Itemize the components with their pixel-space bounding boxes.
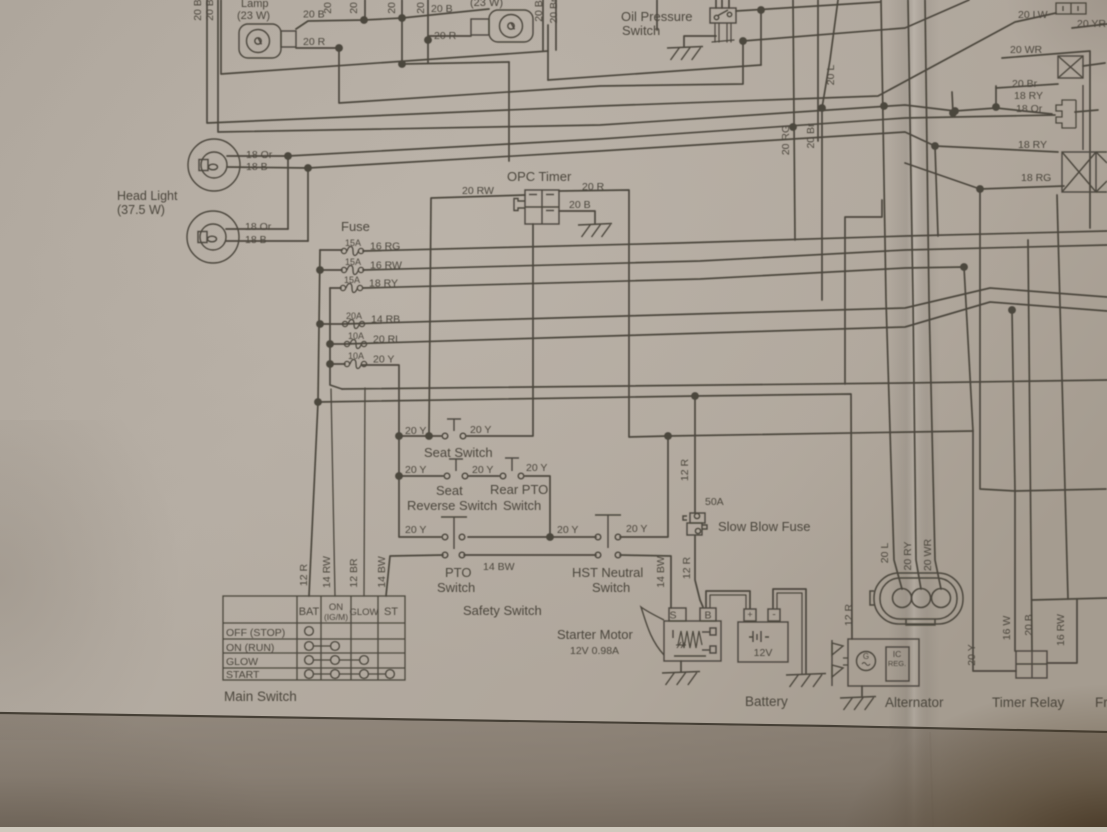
ground (OPC timer) (578, 224, 612, 238)
svg-text:14 RB: 14 RB (371, 314, 400, 326)
svg-text:20 B: 20 B (533, 0, 545, 22)
wire bus F to alternator (318, 394, 852, 639)
top-right soft shade (900, 0, 1107, 170)
wire fuse left vertical x330 (330, 288, 342, 389)
svg-text:14 BW: 14 BW (376, 556, 388, 588)
wire 18Or headlight2 (226, 228, 288, 230)
wire battery minus to ground inner (777, 593, 802, 674)
wire bus to right edge y490 (1015, 489, 1106, 491)
wire starter to ground (680, 661, 682, 672)
bottom-right shadow (700, 580, 1107, 827)
fold crease below rule (930, 732, 933, 827)
wire HST right up (620, 438, 668, 537)
wire step at fold down to bus (845, 200, 882, 384)
wire 20Br stub to connector (996, 84, 1058, 88)
svg-text:S: S (669, 610, 676, 622)
fuse F1 15A 16RG (341, 247, 363, 256)
headlight H2 (37.5 W) (187, 211, 239, 263)
fuse F6 10A 20Y (344, 360, 366, 369)
svg-text:20 Br: 20 Br (805, 123, 817, 149)
svg-text:20 R: 20 R (434, 30, 457, 42)
wire starter B to battery plus inner (710, 595, 746, 608)
svg-text:20 Br: 20 Br (548, 0, 560, 24)
wire 18RY long bus (308, 132, 1058, 168)
wire PTO to HST row1 (468, 536, 596, 538)
wire 12R to slow blow fuse (694, 396, 696, 513)
svg-text:Head Light: Head Light (117, 189, 178, 203)
slow blow fuse F7 50A (683, 513, 707, 535)
wire vertical at x365 (364, 0, 366, 20)
wire seat switch right to OPC timer (467, 224, 533, 436)
svg-text:14 RW: 14 RW (321, 556, 333, 588)
svg-text:20 RW: 20 RW (462, 185, 494, 197)
wire 12R to main switch BAT (309, 402, 318, 596)
svg-text:20 Y: 20 Y (373, 354, 394, 366)
svg-text:12 R: 12 R (298, 563, 310, 586)
svg-text:Safety Switch: Safety Switch (463, 603, 542, 618)
wire fuse4 left stub (320, 323, 343, 325)
battery BT1 12V (738, 609, 788, 662)
wire 14BW to starter S (620, 555, 671, 608)
wire bus E across page (342, 380, 1107, 389)
svg-text:12V 0.98A: 12V 0.98A (570, 645, 619, 657)
svg-text:Switch: Switch (503, 498, 541, 513)
ground (alternator) (840, 697, 876, 711)
headlight H1 (37.5 W) (188, 139, 240, 191)
svg-text:HST Neutral: HST Neutral (572, 565, 643, 580)
wire 14BW PTO row2 to main switch ST (386, 555, 443, 596)
wire 16RG bus (363, 231, 1107, 251)
svg-text:14 BW: 14 BW (483, 561, 515, 573)
svg-text:(23 W): (23 W) (237, 10, 270, 22)
connector X-box top (1058, 56, 1083, 150)
wire 20WR long vertical to alternator connector (925, 0, 941, 589)
fuse F4 20A 14RB (342, 320, 364, 329)
wire fuse2 left stub (320, 269, 342, 271)
wire 18Or headlight1 (227, 155, 288, 157)
wire 20LW bus (far-left vertical to top-right connector) (207, 0, 1056, 123)
svg-text:16 RW: 16 RW (370, 260, 402, 272)
wire vertical x509 (508, 62, 510, 161)
svg-text:20 L: 20 L (879, 543, 891, 564)
wire 20WR line and right vertical (1002, 51, 1090, 228)
wire vertical x428 (427, 0, 429, 63)
svg-text:50A: 50A (705, 496, 724, 508)
left-middle soft shadow (0, 420, 260, 740)
wire 14RB bus (343, 288, 1107, 324)
svg-text:18 RY: 18 RY (369, 278, 398, 290)
wire OPS right exiting top after fold (743, 0, 969, 41)
wire starter B to battery plus outer (706, 591, 750, 608)
wire 20RG vertical (793, 0, 795, 240)
wire vertical from 18RY junction (935, 146, 938, 236)
svg-text:Switch: Switch (437, 580, 475, 595)
svg-text:14 BW: 14 BW (655, 556, 667, 588)
starter motor M1 (641, 607, 721, 661)
wire 20L long vertical to alternator connector (881, 0, 902, 589)
connector top-right small (1056, 3, 1086, 14)
alternator 3-pin connector J1 (870, 573, 963, 625)
lamp L1 (23 W) (239, 24, 296, 58)
svg-text:18 RG: 18 RG (1021, 172, 1051, 184)
wire between seat reverse and rear PTO (469, 475, 499, 477)
wire 20R to lamp2 (428, 35, 471, 37)
wire 12BR to main switch GLOW (364, 388, 365, 596)
svg-text:20 Y: 20 Y (526, 462, 547, 474)
svg-text:18 B: 18 B (246, 161, 268, 173)
connector X-box bottom pair (1062, 152, 1107, 192)
wire 20RY long vertical to alternator connector (908, 0, 921, 589)
svg-text:Switch: Switch (592, 580, 630, 595)
wire 18B headlight2 (226, 240, 308, 242)
svg-text:12 BR: 12 BR (348, 558, 360, 588)
svg-text:20 Y: 20 Y (405, 425, 426, 437)
svg-text:12 R: 12 R (681, 556, 693, 579)
svg-text:16 RG: 16 RG (370, 241, 400, 253)
wire 20B from OPC timer (559, 211, 595, 224)
bottom dark band (0, 714, 1107, 827)
wire OPS upper to right (736, 2, 880, 11)
wire OPS terminal b (718, 23, 720, 42)
oil pressure switch S1 (710, 8, 736, 23)
wire 20R from OPC timer, bus y435 (559, 190, 973, 437)
svg-text:20 B: 20 B (386, 0, 398, 14)
wire 18RY fuse bus to 20Y timer relay (363, 267, 1016, 671)
svg-text:20 B: 20 B (569, 199, 591, 211)
svg-text:OPC Timer: OPC Timer (507, 169, 572, 184)
wire lamp box left+bottom (221, 0, 548, 74)
svg-text:10A: 10A (348, 351, 364, 361)
wire OPS terminal bar (712, 40, 734, 42)
wire OPS terminal d (730, 23, 732, 42)
wire vertical x308 (307, 168, 309, 241)
svg-text:15A: 15A (345, 257, 361, 267)
fuse F2 15A 16RW (341, 266, 363, 275)
wire 20R down and across to oil pressure switch (339, 41, 743, 103)
wire lamp box right edge (547, 25, 549, 80)
svg-text:20 B: 20 B (192, 0, 204, 21)
wire 14RW to main switch ON (331, 389, 335, 596)
wire 20B vertical to timer relay (1028, 240, 1032, 651)
svg-text:20 B: 20 B (431, 3, 453, 15)
wire rear PTO right down (525, 476, 550, 537)
wire bus y599 right (1032, 598, 1107, 600)
svg-text:20 Y: 20 Y (626, 523, 647, 535)
svg-text:20 B: 20 B (348, 0, 360, 14)
PTO switch SW4 (441, 517, 467, 558)
svg-text:20 Y: 20 Y (472, 464, 493, 476)
wire fuse5 left stub (330, 343, 345, 345)
svg-text:15A: 15A (344, 275, 360, 285)
svg-text:15A: 15A (345, 238, 361, 248)
wire fuse6 left stub (330, 363, 345, 365)
rear PTO switch SW3 (500, 458, 524, 479)
svg-text:20 RL: 20 RL (373, 334, 401, 346)
wire fuse3 left stub (330, 287, 341, 289)
svg-text:20 WR: 20 WR (922, 539, 934, 572)
wire 18Or bus (left vertical to stepped connector) (218, 0, 1052, 132)
svg-text:20 B: 20 B (415, 0, 427, 14)
wire 20Br vertical (817, 0, 819, 141)
ground (oil pressure switch) (667, 47, 703, 61)
wire 20R from lamp1 (296, 47, 339, 49)
wire 20B between lamps (296, 9, 489, 29)
main switch table labels (226, 602, 398, 681)
seat reverse switch SW2 (444, 459, 468, 479)
ground (starter motor) (662, 672, 700, 686)
wire long right vertical (1057, 195, 1068, 599)
svg-text:Seat: Seat (436, 483, 463, 498)
HST neutral switch SW5 (595, 515, 621, 558)
wire 18RG line (905, 163, 1064, 189)
svg-text:20 R: 20 R (303, 36, 326, 48)
wire 18Or long bus (288, 115, 1055, 156)
wire battery minus to ground outer (773, 589, 806, 674)
svg-text:Fuse: Fuse (341, 219, 370, 234)
svg-text:20 Y: 20 Y (470, 424, 491, 436)
wire 20RW from OPC timer (429, 195, 525, 436)
svg-text:10A: 10A (348, 331, 364, 341)
wire vertical x402 and link (402, 0, 509, 64)
svg-text:(23 W): (23 W) (470, 0, 503, 9)
svg-text:(37.5 W): (37.5 W) (117, 203, 165, 217)
wire 20Y fuse to seat switches and PTO (362, 365, 441, 537)
svg-text:Lamp: Lamp (241, 0, 269, 10)
svg-text:Rear PTO: Rear PTO (490, 482, 548, 497)
wire lamp box bottom right segment (548, 65, 761, 80)
seat switch SW1 (442, 419, 466, 439)
svg-text:18 Or: 18 Or (246, 149, 273, 161)
wire 20B right of lamp2 (542, 0, 544, 50)
wire vertical x761 (760, 10, 762, 65)
wire OPS top stub 1 (715, 0, 717, 8)
fuse F3 15A 18RY (340, 284, 362, 293)
wire OPS terminal a (714, 23, 716, 42)
svg-text:Seat Switch: Seat Switch (424, 445, 493, 460)
OPC timer U1 (514, 190, 559, 224)
wire 20RL bus (345, 302, 1107, 344)
fuse F5 10A 20RL (344, 340, 366, 349)
wire seat reverse left (399, 475, 443, 477)
wire vertical x996 (995, 86, 997, 107)
wire from 20RL bus to 16W corner (1012, 310, 1015, 491)
wire 14BW row2 middle (464, 554, 596, 556)
svg-text:PTO: PTO (445, 565, 472, 580)
alternator G1 (832, 639, 919, 686)
wire vertical x952 (952, 92, 953, 113)
wire fuse left vertical x320 (318, 250, 320, 402)
wire OPS top stub 2 (721, 0, 723, 8)
wire connector right stub 2 (1075, 110, 1098, 112)
svg-text:20 B: 20 B (322, 0, 334, 14)
bottom-left shadow (0, 600, 430, 827)
svg-text:20 RG: 20 RG (780, 125, 792, 155)
wire OPS to ground (684, 36, 716, 47)
rotated wire labels (192, 0, 1067, 666)
lamp L2 (23 W) (471, 10, 533, 42)
svg-text:Reverse Switch: Reverse Switch (407, 498, 497, 513)
wire OPS top stub 3 (728, 0, 730, 8)
svg-text:12 R: 12 R (679, 458, 691, 481)
wire 12R slow blow to starter B (695, 536, 703, 607)
wire 16W: vertical x980 to timer relay (980, 189, 1015, 651)
wire 16RW bus (363, 245, 1107, 270)
timer relay K1 (1016, 651, 1047, 678)
wire vertical x288 (287, 156, 289, 229)
wire connector right stub 1 (1083, 63, 1105, 66)
wire 20YR stub (1072, 24, 1107, 28)
svg-text:18 B: 18 B (245, 234, 267, 246)
wire seat switch left (399, 435, 441, 437)
svg-text:18 Or: 18 Or (245, 221, 272, 233)
svg-text:20 Y: 20 Y (405, 464, 426, 476)
svg-text:20 L: 20 L (825, 65, 837, 86)
main switch table (223, 596, 405, 680)
wire fuse1 left stub (320, 249, 342, 251)
wire OPS terminal c (726, 23, 728, 42)
svg-text:20 R: 20 R (582, 181, 605, 193)
wire 16RW from timer relay (1047, 599, 1077, 663)
connector stepped plug (1056, 100, 1076, 128)
svg-text:Slow Blow Fuse: Slow Blow Fuse (718, 519, 810, 534)
ground (battery) (786, 674, 826, 688)
page bottom rule (0, 713, 1107, 732)
svg-text:20 Y: 20 Y (405, 524, 426, 536)
svg-text:Starter Motor: Starter Motor (557, 627, 634, 642)
wire 20Br right of lamp2 (555, 0, 557, 50)
svg-text:20 B: 20 B (204, 0, 216, 21)
wire 20L vertical (822, 0, 838, 300)
wire vertical x657 (656, 0, 658, 30)
wire 18B headlight1 (227, 167, 308, 168)
svg-text:Switch: Switch (622, 23, 660, 38)
svg-text:Oil Pressure: Oil Pressure (621, 9, 693, 24)
svg-text:20 RY: 20 RY (902, 542, 914, 571)
svg-text:20A: 20A (346, 311, 362, 321)
wire alternator to ground (861, 686, 863, 696)
svg-text:20 Y: 20 Y (557, 524, 578, 536)
